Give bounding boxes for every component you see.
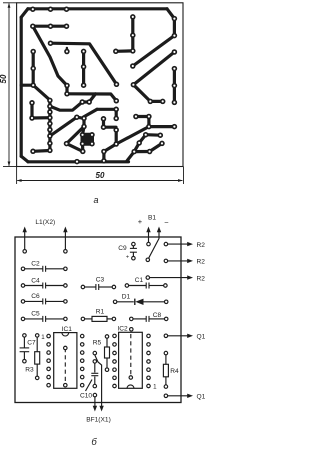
pad IC1 R <box>80 351 84 355</box>
wire diag 126 <box>116 127 149 144</box>
svg-text:R1: R1 <box>96 308 105 315</box>
pad <box>146 276 150 280</box>
pad T <box>80 149 86 155</box>
resistor R5 <box>105 347 110 358</box>
pad R3 a <box>35 334 39 338</box>
wire C3 left <box>85 286 96 288</box>
wire diag 151-143 <box>150 143 162 151</box>
pad <box>113 127 119 133</box>
pad <box>160 99 166 105</box>
wire border top-left chamfer <box>21 9 28 17</box>
pad IC1 center b <box>64 383 68 387</box>
wire diag right 2 <box>133 52 174 85</box>
pad <box>172 49 178 55</box>
wire E2-I <box>50 102 82 110</box>
pad I <box>80 99 86 105</box>
pad IC1 L <box>47 334 51 338</box>
pad R5 a <box>105 335 109 339</box>
pad C9 b <box>132 256 136 260</box>
wire C3 right <box>99 286 112 288</box>
pad <box>172 100 178 106</box>
svg-text:+: + <box>138 217 143 226</box>
pad <box>101 116 107 122</box>
svg-text:C9: C9 <box>118 245 127 252</box>
svg-text:−: − <box>164 218 169 227</box>
pad L1 b <box>64 250 68 254</box>
pad <box>80 141 86 147</box>
pad <box>172 66 178 72</box>
pad IC2 L <box>113 334 117 338</box>
capacitor C1 <box>145 283 147 289</box>
resistor R1 <box>92 316 107 321</box>
pad <box>47 115 53 121</box>
pad <box>164 394 168 398</box>
pad C4 b <box>64 284 68 288</box>
pad C2 a <box>21 267 25 271</box>
wire W-down <box>134 143 139 152</box>
wire v 148 <box>147 117 150 127</box>
wire stub border2 <box>102 152 105 161</box>
capacitor C7 <box>20 347 30 349</box>
svg-text:C10: C10 <box>80 393 92 400</box>
pad X <box>158 132 164 138</box>
wire C6 left <box>25 300 43 302</box>
wire C7 top lead <box>23 337 25 348</box>
svg-text:R4: R4 <box>170 368 179 375</box>
wire C10 leader <box>86 380 93 392</box>
pad <box>81 64 87 70</box>
wire cluster-T <box>81 144 85 152</box>
svg-text:C7: C7 <box>27 340 36 347</box>
pad IC1 R <box>80 359 84 363</box>
wire C9 top lead <box>132 246 134 248</box>
pad C4 a <box>21 284 25 288</box>
wire mid column <box>82 51 85 85</box>
pad <box>113 107 119 113</box>
wire R4 top lead <box>165 355 167 364</box>
pad G <box>64 91 70 97</box>
pad IC1 R <box>80 334 84 338</box>
pad <box>146 114 152 120</box>
wire BF1 lead 1 <box>94 397 96 408</box>
wire R3 top lead <box>36 337 38 351</box>
wire diag S-feed <box>67 127 85 144</box>
pad F <box>64 83 70 89</box>
pad V <box>143 132 149 138</box>
wire diag to B <box>33 85 50 100</box>
pad A <box>64 49 70 55</box>
wire C1 left <box>129 285 146 287</box>
wire diag 116-104 <box>104 144 116 152</box>
svg-text:Q1: Q1 <box>197 334 206 341</box>
wire R3 bottom lead <box>36 364 38 376</box>
pad C5 a <box>21 317 25 321</box>
pad C6 a <box>21 300 25 304</box>
pad <box>113 49 119 55</box>
pad IC1 R <box>80 383 84 387</box>
pad IC2 R <box>147 376 151 380</box>
capacitor C10 <box>91 372 98 374</box>
board outline (top PCB) <box>17 3 183 167</box>
pad C <box>29 100 35 106</box>
pad <box>30 49 36 55</box>
svg-text:C5: C5 <box>31 311 40 318</box>
wire BF1 lead 2 (long) <box>95 355 102 407</box>
pad <box>47 133 53 139</box>
pad C3 a <box>81 285 85 289</box>
wire col 132 top <box>131 17 134 51</box>
pad IC1 L <box>47 343 51 347</box>
wire C7 bottom lead <box>23 352 25 360</box>
pad B1+ <box>147 242 151 246</box>
pad <box>47 121 53 127</box>
pad R4 a <box>164 351 168 355</box>
pad IC1 L <box>47 383 51 387</box>
pad IC1 L <box>47 367 51 371</box>
wire C1 right <box>149 285 164 287</box>
svg-text:1: 1 <box>153 384 157 391</box>
wire I-J <box>82 100 89 103</box>
wire h 127 <box>104 126 117 129</box>
pad IC2 R <box>147 384 151 388</box>
wire pair 116 <box>136 115 149 118</box>
pad <box>89 132 95 138</box>
wire right col v2 <box>173 69 176 103</box>
pad C1 a <box>125 284 128 288</box>
wire V-W <box>139 135 146 143</box>
wire col 132 elbow <box>116 49 133 53</box>
pad R3 b <box>35 376 39 380</box>
wire E column chain <box>48 100 51 150</box>
pad IC1 L <box>47 351 51 355</box>
wire C8 left <box>133 318 146 320</box>
pad <box>101 149 107 155</box>
pad IC2 R <box>147 368 151 372</box>
pad IC1 L <box>47 359 51 363</box>
pad <box>47 104 53 110</box>
pad P3 <box>30 23 36 29</box>
vertical dimension line 50 <box>8 4 10 166</box>
pad <box>164 259 168 263</box>
pad N <box>114 98 120 104</box>
pad <box>172 83 178 89</box>
svg-text:C3: C3 <box>96 276 105 283</box>
pad W <box>136 140 142 146</box>
wire border top-right diagonal <box>167 9 174 19</box>
pad <box>131 149 137 155</box>
wire C4 right <box>46 285 64 287</box>
op-amp IC1 outline <box>54 333 77 389</box>
svg-text:B1: B1 <box>148 215 156 222</box>
wire to R2 (2) <box>168 260 189 262</box>
wire left column <box>32 52 35 86</box>
pad C10 b <box>93 384 97 388</box>
wire stub border <box>21 84 33 87</box>
pad IC1 R <box>80 343 84 347</box>
capacitor C6 <box>42 298 44 304</box>
pad C8 b <box>164 317 168 321</box>
wire border bottom-left chamfer <box>21 156 28 162</box>
wire bottom left pair <box>33 149 50 153</box>
pad <box>74 114 80 120</box>
wire border bottom <box>28 160 129 163</box>
svg-text:+: + <box>126 255 129 261</box>
wire Q-R <box>150 100 162 103</box>
wire stub pad A <box>66 48 68 52</box>
wire diag Q <box>133 85 150 102</box>
pad <box>47 141 53 147</box>
pad IC1 L <box>47 375 51 379</box>
pad IC2 L <box>113 368 117 372</box>
wire pair 117 <box>77 117 84 118</box>
wire R5 bottom lead <box>106 358 108 368</box>
pad <box>130 63 136 69</box>
pad <box>30 82 36 88</box>
pad IC2 L <box>113 376 117 380</box>
svg-text:IC1: IC1 <box>62 326 73 333</box>
pad IC1 center a <box>64 346 68 350</box>
board outline (component side) <box>15 237 181 403</box>
wire border left <box>20 17 23 156</box>
svg-text:BF1(X1): BF1(X1) <box>86 417 111 424</box>
pad IC2 top <box>130 328 134 332</box>
pad J <box>86 99 92 105</box>
wire diag right 1 <box>133 36 175 66</box>
wire R1 left <box>85 318 92 320</box>
pad <box>164 242 168 246</box>
pad IC2 R <box>147 334 151 338</box>
pad <box>133 114 139 120</box>
pad <box>172 16 178 22</box>
wire C6 right <box>46 300 64 302</box>
pad <box>80 132 86 138</box>
wire P5 horizontal + long diagonal <box>51 43 117 84</box>
pad IC2 L <box>113 384 117 388</box>
pad IC2 center <box>129 376 133 380</box>
svg-text:L1(X2): L1(X2) <box>35 219 55 226</box>
wire C5 right <box>46 318 64 320</box>
pad <box>89 141 95 147</box>
pad D1 b <box>164 300 168 304</box>
wire C2 left <box>25 268 43 270</box>
wire diag 109 <box>84 109 98 117</box>
wire L1 lead right <box>64 231 66 252</box>
pad <box>147 149 153 155</box>
wire C9 bottom lead <box>132 252 134 256</box>
pad L1 a <box>23 250 27 254</box>
svg-text:R3: R3 <box>25 367 34 374</box>
pad <box>159 141 165 147</box>
pad C5 b <box>64 317 68 321</box>
svg-text:C4: C4 <box>31 277 40 284</box>
wire pair 103col <box>102 119 105 127</box>
svg-text:R5: R5 <box>93 339 102 346</box>
pad D1 a <box>113 300 117 304</box>
pad IC2 L <box>113 343 117 347</box>
pad <box>81 116 87 122</box>
pad <box>81 49 87 55</box>
wire R5 top lead <box>106 338 108 347</box>
wire to Q1 (1) <box>168 335 189 337</box>
pad C2 b <box>64 267 68 271</box>
wire to border end <box>127 152 134 161</box>
pad C6 b <box>64 300 68 304</box>
pad D <box>29 115 35 121</box>
pad B <box>47 98 53 104</box>
op-amp IC2 outline <box>119 332 143 388</box>
cluster blob <box>83 135 93 144</box>
pad P4 <box>48 23 54 29</box>
svg-text:50: 50 <box>96 171 105 180</box>
horizontal dimension line 50 <box>17 180 182 182</box>
capacitor C2 <box>42 266 44 272</box>
pad C7 b <box>23 359 27 363</box>
pad 1 <box>30 6 36 12</box>
svg-text:б: б <box>91 437 97 448</box>
svg-text:50: 50 <box>0 74 8 83</box>
pad IC2 L <box>113 351 117 355</box>
wire to R2 (3) <box>150 277 189 279</box>
pad IC2 R <box>147 351 151 355</box>
pad IC2 L <box>113 360 117 364</box>
wire v 84 <box>82 118 85 126</box>
pad <box>172 124 178 130</box>
wire V-X <box>146 133 161 137</box>
wire border top <box>28 7 167 10</box>
pad C1 b <box>164 284 168 288</box>
wire B1 minus lead <box>148 231 159 260</box>
wire C-D <box>30 103 33 118</box>
wire stub J <box>89 94 95 102</box>
pad IC2 R <box>147 343 151 347</box>
capacitor C8 <box>145 316 147 322</box>
pad R1 b <box>112 317 116 321</box>
pad <box>172 33 178 39</box>
pad <box>30 66 36 72</box>
wire v 116a <box>115 109 118 118</box>
wire trace 109 <box>97 108 116 111</box>
capacitor C9 <box>130 247 137 249</box>
svg-text:R2: R2 <box>197 259 206 266</box>
wire diag E7 <box>50 117 77 136</box>
pad <box>130 14 136 20</box>
pad <box>113 141 119 147</box>
pad IC1 R <box>80 367 84 371</box>
svg-text:C2: C2 <box>31 261 40 268</box>
capacitor C5 <box>42 316 44 322</box>
pad <box>30 149 36 155</box>
svg-text:а: а <box>93 195 98 205</box>
wire R4 bottom lead <box>165 377 167 385</box>
pad R1 a <box>81 317 85 321</box>
pad <box>81 82 87 88</box>
svg-text:R2: R2 <box>197 242 206 249</box>
pad <box>130 48 136 54</box>
svg-text:C8: C8 <box>153 312 162 319</box>
IC2 dashed center line <box>130 334 132 378</box>
pad R5 b <box>105 368 109 372</box>
wire D1 right <box>144 301 165 303</box>
wire to Q1 (2) <box>168 395 189 397</box>
pad C8 a <box>130 317 134 321</box>
pad <box>113 116 119 122</box>
pad <box>148 99 154 105</box>
pad P5 <box>48 40 54 46</box>
wire B1 plus lead <box>148 231 150 245</box>
wire R1 right <box>107 318 112 320</box>
wire C8 right <box>149 318 164 320</box>
svg-text:C1: C1 <box>135 277 144 284</box>
wire D-E <box>32 116 50 120</box>
pad <box>164 334 168 338</box>
pad 2 <box>48 6 54 12</box>
wire right col v1 <box>173 19 176 36</box>
pad <box>47 109 53 115</box>
pad <box>130 32 136 38</box>
wire to R2 (1) <box>168 243 189 245</box>
pad B1- <box>146 258 150 262</box>
resistor R3 <box>35 352 40 364</box>
pad <box>47 127 53 133</box>
pad C7 a <box>23 334 27 338</box>
IC1 dashed center line <box>64 348 66 385</box>
pad C3 b <box>112 285 116 289</box>
pad C10 a <box>93 360 97 364</box>
pad S <box>64 141 70 147</box>
svg-text:R2: R2 <box>197 275 206 282</box>
wire L1 lead left <box>24 231 26 252</box>
svg-text:C6: C6 <box>31 293 40 300</box>
wire h 126 <box>149 125 175 128</box>
pad <box>131 82 137 88</box>
wire v 116b <box>115 130 118 144</box>
pad 3 <box>64 6 70 12</box>
svg-text:D1: D1 <box>122 293 131 300</box>
pad BF1 b <box>93 393 97 397</box>
wire F-G <box>65 86 68 94</box>
pad P4b <box>64 23 70 29</box>
wire G trace <box>67 94 116 101</box>
capacitor C4 <box>42 283 44 289</box>
wire C10 bottom lead <box>94 377 96 385</box>
wire diagonal P3-F <box>33 26 67 85</box>
wire C10 top lead <box>94 363 96 372</box>
pad C9 a <box>132 242 136 246</box>
wire into cluster <box>83 127 85 135</box>
pad <box>74 159 80 165</box>
svg-text:Q1: Q1 <box>197 394 206 401</box>
wire S-T <box>67 144 83 152</box>
resistor R4 <box>163 364 168 377</box>
dimension extension lines <box>3 2 17 4</box>
pad IC1 R <box>80 375 84 379</box>
pad <box>146 124 152 130</box>
pad <box>47 148 53 154</box>
wire pair 151 <box>134 150 149 153</box>
diode D1 <box>134 299 136 305</box>
pad IC2 R <box>147 360 151 364</box>
wire C5 left <box>25 318 43 320</box>
pad <box>81 124 87 130</box>
pad BF1 a <box>93 351 97 355</box>
wire C4 left <box>25 285 43 287</box>
wire row2 <box>33 25 67 28</box>
pad R4 b <box>164 385 168 389</box>
svg-text:1: 1 <box>41 334 45 341</box>
wire D1 left <box>117 301 134 303</box>
wire C2 right <box>46 268 64 270</box>
svg-text:IC2: IC2 <box>117 326 128 333</box>
